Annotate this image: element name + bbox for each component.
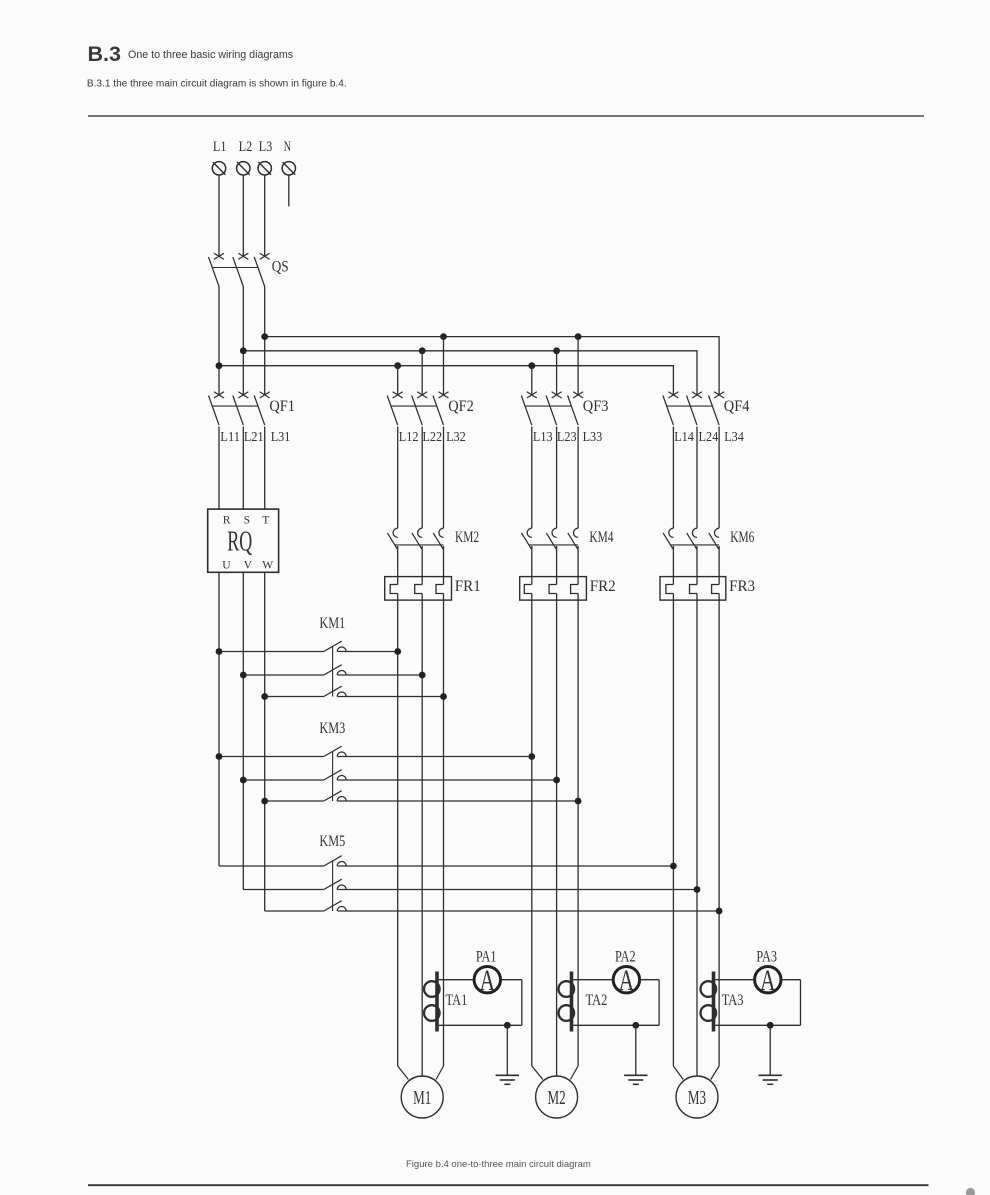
wire QF1 pole 2 to RQ bbox=[242, 427, 244, 510]
svg-text:A: A bbox=[480, 964, 496, 997]
node KM5 right tap pole 3 bbox=[716, 908, 723, 915]
node bus tap QF2 pole 1 bbox=[394, 362, 401, 369]
svg-text:L13: L13 bbox=[533, 429, 553, 444]
ground bbox=[496, 1025, 519, 1084]
node bus tap QF3 pole 2 bbox=[553, 347, 560, 354]
svg-text:L31: L31 bbox=[271, 429, 291, 444]
svg-text:A: A bbox=[619, 964, 635, 997]
svg-text:TA2: TA2 bbox=[586, 992, 608, 1009]
svg-text:PA2: PA2 bbox=[615, 949, 636, 966]
wire QF3 to contactor bbox=[532, 427, 578, 529]
svg-text:KM6: KM6 bbox=[730, 529, 754, 546]
node bus tap QF1 pole 3 bbox=[261, 333, 268, 340]
bus phase L3 bbox=[265, 337, 719, 395]
svg-text:L12: L12 bbox=[399, 429, 419, 444]
svg-text:B.3.1 the three main circuit d: B.3.1 the three main circuit diagram is … bbox=[87, 79, 347, 90]
svg-text:L23: L23 bbox=[557, 429, 577, 444]
wire KM6 to thermal relay bbox=[673, 546, 719, 585]
current transformer TA2 bbox=[559, 972, 608, 1032]
thermal relay FR3 bbox=[660, 577, 755, 601]
svg-text:L14: L14 bbox=[674, 429, 694, 444]
svg-text:N: N bbox=[284, 139, 292, 155]
node KM1 left tap phase 1 bbox=[216, 648, 223, 655]
svg-text:QS: QS bbox=[272, 258, 289, 275]
thermal relay FR2 bbox=[520, 577, 616, 601]
transformer RQ bbox=[208, 509, 279, 572]
wire RQ output W down bbox=[264, 572, 266, 911]
node KM3 left tap phase 1 bbox=[216, 753, 223, 760]
node KM1 left tap phase 2 bbox=[240, 672, 247, 679]
svg-text:W: W bbox=[262, 559, 273, 572]
bus phase L2 bbox=[243, 351, 697, 395]
svg-text:Figure b.4 one-to-three main c: Figure b.4 one-to-three main circuit dia… bbox=[406, 1159, 591, 1170]
wire PA2 loop bbox=[573, 980, 659, 1026]
node bus tap QF1 pole 1 bbox=[216, 362, 223, 369]
bottom rule bbox=[88, 1184, 929, 1186]
svg-text:TA1: TA1 bbox=[446, 992, 468, 1009]
svg-text:T: T bbox=[262, 513, 269, 526]
node PA1 ground tap bbox=[504, 1022, 511, 1029]
wire RQ output V down bbox=[242, 572, 244, 889]
node KM1 right tap pole 3 bbox=[440, 693, 447, 700]
breaker QF4 bbox=[663, 392, 750, 425]
contactor KM3 bbox=[219, 720, 578, 801]
contactor KM2 bbox=[387, 528, 479, 549]
wire QF2 to contactor bbox=[398, 427, 444, 529]
wire phase L3 QS to QF1 bbox=[264, 287, 266, 395]
node KM3 right tap pole 2 bbox=[553, 777, 560, 784]
svg-text:M2: M2 bbox=[548, 1087, 566, 1109]
node KM1 right tap pole 2 bbox=[419, 672, 426, 679]
terminal L1 bbox=[212, 139, 226, 175]
svg-text:L24: L24 bbox=[699, 429, 719, 444]
svg-text:L33: L33 bbox=[583, 429, 603, 444]
svg-text:L3: L3 bbox=[259, 139, 273, 155]
wire QF4 to contactor bbox=[673, 427, 719, 529]
current transformer TA3 bbox=[701, 972, 744, 1032]
svg-text:FR1: FR1 bbox=[455, 578, 481, 595]
wire bus drop QF3 pole 2 bbox=[556, 351, 558, 395]
svg-text:QF2: QF2 bbox=[448, 398, 474, 415]
svg-text:L34: L34 bbox=[724, 429, 744, 444]
svg-text:PA1: PA1 bbox=[476, 949, 497, 966]
svg-text:R: R bbox=[223, 513, 231, 526]
wire phase L2 QS to QF1 bbox=[242, 287, 244, 395]
motor M3 bbox=[673, 1066, 719, 1118]
wire bus drop QF3 pole 1 bbox=[531, 366, 533, 395]
bus phase L1 bbox=[219, 366, 673, 395]
motor M1 bbox=[398, 1066, 444, 1118]
node bus tap QF2 pole 3 bbox=[440, 333, 447, 340]
ammeter PA2 bbox=[613, 949, 639, 998]
svg-text:L11: L11 bbox=[220, 429, 240, 444]
svg-text:One to three basic wiring diag: One to three basic wiring diagrams bbox=[128, 49, 293, 61]
node KM1 left tap phase 3 bbox=[261, 693, 268, 700]
svg-text:QF4: QF4 bbox=[724, 398, 750, 415]
ammeter PA3 bbox=[755, 949, 781, 998]
labels L13 L23 L33 bbox=[533, 429, 603, 444]
terminal N bbox=[282, 139, 295, 175]
wire PA1 loop bbox=[439, 980, 522, 1026]
node KM3 right tap pole 1 bbox=[528, 753, 535, 760]
svg-text:KM3: KM3 bbox=[319, 720, 345, 737]
svg-text:U: U bbox=[222, 559, 231, 572]
node bus tap QF2 pole 2 bbox=[419, 347, 426, 354]
wire bus drop QF2 pole 1 bbox=[397, 366, 399, 395]
svg-text:RQ: RQ bbox=[227, 526, 252, 558]
wire RQ output U down bbox=[218, 572, 220, 866]
breaker QF1 bbox=[209, 392, 296, 425]
wire FR2 to motor bbox=[532, 594, 578, 1077]
node KM3 right tap pole 3 bbox=[575, 798, 582, 805]
node KM3 left tap phase 3 bbox=[261, 798, 268, 805]
wire KM4 to thermal relay bbox=[532, 546, 578, 585]
ground bbox=[759, 1025, 782, 1084]
wire L3 terminal to QS pole 3 bbox=[264, 175, 266, 256]
node bus tap QF3 pole 1 bbox=[528, 362, 535, 369]
svg-text:L2: L2 bbox=[239, 139, 253, 155]
contactor KM4 bbox=[522, 528, 614, 549]
breaker QF2 bbox=[387, 392, 474, 425]
svg-text:L21: L21 bbox=[244, 429, 264, 444]
wire phase L1 QS to QF1 bbox=[218, 287, 220, 395]
wire QF1 pole 1 to RQ bbox=[218, 427, 220, 510]
svg-text:L32: L32 bbox=[446, 429, 466, 444]
wire bus drop QF2 pole 3 bbox=[443, 337, 445, 395]
contactor KM1 bbox=[219, 615, 444, 696]
contactor KM6 bbox=[663, 528, 754, 549]
svg-text:KM2: KM2 bbox=[455, 529, 479, 546]
wire PA3 loop bbox=[715, 980, 800, 1026]
svg-text:M3: M3 bbox=[688, 1087, 706, 1109]
contactor KM5 bbox=[219, 833, 719, 911]
thermal relay FR1 bbox=[385, 577, 481, 601]
terminal L3 bbox=[258, 139, 272, 175]
svg-text:FR2: FR2 bbox=[590, 578, 616, 595]
disconnector QS bbox=[209, 253, 289, 286]
wire L2 terminal to QS pole 2 bbox=[242, 175, 244, 256]
node KM1 right tap pole 1 bbox=[394, 648, 401, 655]
svg-text:KM1: KM1 bbox=[319, 615, 345, 632]
svg-text:B.3: B.3 bbox=[88, 42, 122, 66]
svg-text:KM4: KM4 bbox=[589, 529, 613, 546]
svg-text:PA3: PA3 bbox=[756, 949, 777, 966]
current transformer TA1 bbox=[424, 972, 467, 1032]
svg-text:KM5: KM5 bbox=[319, 833, 345, 850]
ammeter PA1 bbox=[474, 949, 500, 998]
wire FR1 to motor bbox=[398, 594, 444, 1077]
node KM3 left tap phase 2 bbox=[240, 777, 247, 784]
terminal L2 bbox=[237, 139, 253, 175]
wire N stub bbox=[288, 175, 290, 206]
motor M2 bbox=[532, 1066, 578, 1118]
ground bbox=[624, 1025, 647, 1084]
wire bus drop QF2 pole 2 bbox=[421, 351, 423, 395]
svg-text:L1: L1 bbox=[213, 139, 227, 155]
wire QF1 pole 3 to RQ bbox=[264, 427, 266, 510]
node PA2 ground tap bbox=[632, 1022, 639, 1029]
svg-text:FR3: FR3 bbox=[729, 578, 755, 595]
wire KM2 to thermal relay bbox=[398, 546, 444, 585]
svg-text:TA3: TA3 bbox=[722, 992, 744, 1009]
node KM5 right tap pole 1 bbox=[670, 863, 677, 870]
svg-text:QF1: QF1 bbox=[269, 398, 295, 415]
breaker QF3 bbox=[521, 392, 608, 425]
page corner dot bbox=[966, 1188, 975, 1195]
node PA3 ground tap bbox=[767, 1022, 774, 1029]
labels L14 L24 L34 bbox=[674, 429, 744, 444]
svg-text:QF3: QF3 bbox=[583, 398, 609, 415]
node bus tap QF1 pole 2 bbox=[240, 347, 247, 354]
svg-text:M1: M1 bbox=[413, 1087, 431, 1109]
wire L1 terminal to QS pole 1 bbox=[218, 175, 220, 256]
svg-text:A: A bbox=[760, 964, 776, 997]
labels L12 L22 L32 bbox=[399, 429, 466, 444]
wire FR3 to motor bbox=[673, 594, 719, 1077]
node KM5 right tap pole 2 bbox=[694, 886, 701, 893]
svg-text:L22: L22 bbox=[422, 429, 442, 444]
labels L11 L21 L31 bbox=[220, 429, 290, 444]
svg-text:V: V bbox=[244, 559, 253, 572]
node bus tap QF3 pole 3 bbox=[575, 333, 582, 340]
wire bus drop QF3 pole 3 bbox=[577, 337, 579, 395]
top rule bbox=[88, 115, 924, 117]
svg-text:S: S bbox=[244, 513, 250, 526]
